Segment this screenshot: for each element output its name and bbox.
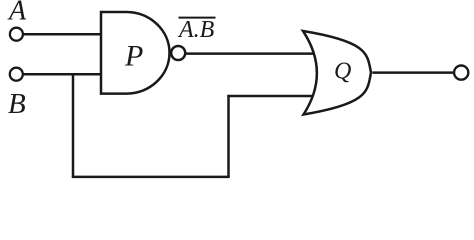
NAND inverter bubble [171, 46, 185, 60]
OR gate Q body [303, 31, 371, 115]
overline of A.B [179, 17, 216, 19]
wire right riser up [227, 95, 230, 178]
svg-text:Q: Q [334, 59, 351, 85]
wire to OR lower input [227, 95, 313, 98]
wire OR output [373, 71, 454, 74]
svg-text:P: P [124, 40, 143, 73]
wire B to NAND input [23, 73, 102, 76]
svg-text:B: B [8, 88, 26, 120]
wire bottom horizontal [72, 176, 230, 179]
svg-text:A: A [7, 0, 27, 27]
input terminal A [10, 28, 23, 41]
wire branch from B down [72, 73, 75, 178]
svg-text:A.B: A.B [177, 17, 215, 43]
wire A to NAND input [23, 33, 102, 36]
output terminal [454, 66, 468, 80]
wire NAND output to OR upper input [185, 52, 314, 55]
input terminal B [10, 68, 23, 81]
NAND gate P body [101, 12, 170, 94]
